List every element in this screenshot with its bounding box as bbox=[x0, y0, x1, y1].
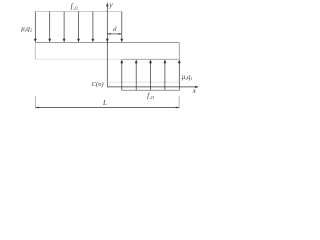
plate bottom edge left (faint) bbox=[35, 58, 122, 60]
reaction load arrow 1 bbox=[120, 59, 180, 90]
plate bottom edge right bbox=[122, 58, 180, 60]
svg-text:μsq2: μsq2 bbox=[21, 26, 33, 33]
L dimension extension line right bbox=[178, 96, 180, 109]
reaction load arrow 5 bbox=[178, 63, 180, 90]
distributed load arrow 6 (on y axis) bbox=[106, 39, 109, 43]
svg-text:x: x bbox=[192, 87, 197, 95]
svg-text:C(o): C(o) bbox=[92, 81, 104, 88]
distributed load arrow 5 bbox=[92, 12, 94, 40]
d dimension arrows bbox=[107, 33, 122, 35]
L dimension line bbox=[36, 107, 179, 109]
distributed load arrow 4 bbox=[78, 12, 80, 40]
svg-text:d: d bbox=[113, 26, 117, 33]
x axis bbox=[107, 86, 199, 88]
distributed load arrow 3 bbox=[63, 12, 65, 40]
svg-text:y: y bbox=[108, 0, 113, 9]
distributed load arrow 2 bbox=[49, 12, 51, 40]
load f22 top line bbox=[35, 11, 122, 13]
plate right edge bbox=[178, 43, 180, 60]
reaction load arrow 3 bbox=[150, 63, 152, 90]
plate top edge bbox=[35, 42, 179, 44]
L dimension extension line left bbox=[35, 96, 37, 109]
plate left edge bbox=[34, 43, 36, 60]
svg-text:21: 21 bbox=[150, 95, 155, 100]
distributed load arrow 7 bbox=[121, 12, 123, 40]
reaction load arrow 4 bbox=[164, 63, 166, 90]
svg-text:22: 22 bbox=[74, 6, 79, 11]
svg-text:L: L bbox=[102, 99, 107, 107]
distributed load arrow 1 bbox=[34, 12, 123, 43]
faint line below plate bbox=[107, 81, 179, 83]
reaction load arrow 2 bbox=[135, 63, 137, 90]
svg-text:μsq1: μsq1 bbox=[182, 74, 193, 81]
y axis bbox=[106, 2, 108, 87]
load f21 bottom line bbox=[122, 89, 180, 91]
